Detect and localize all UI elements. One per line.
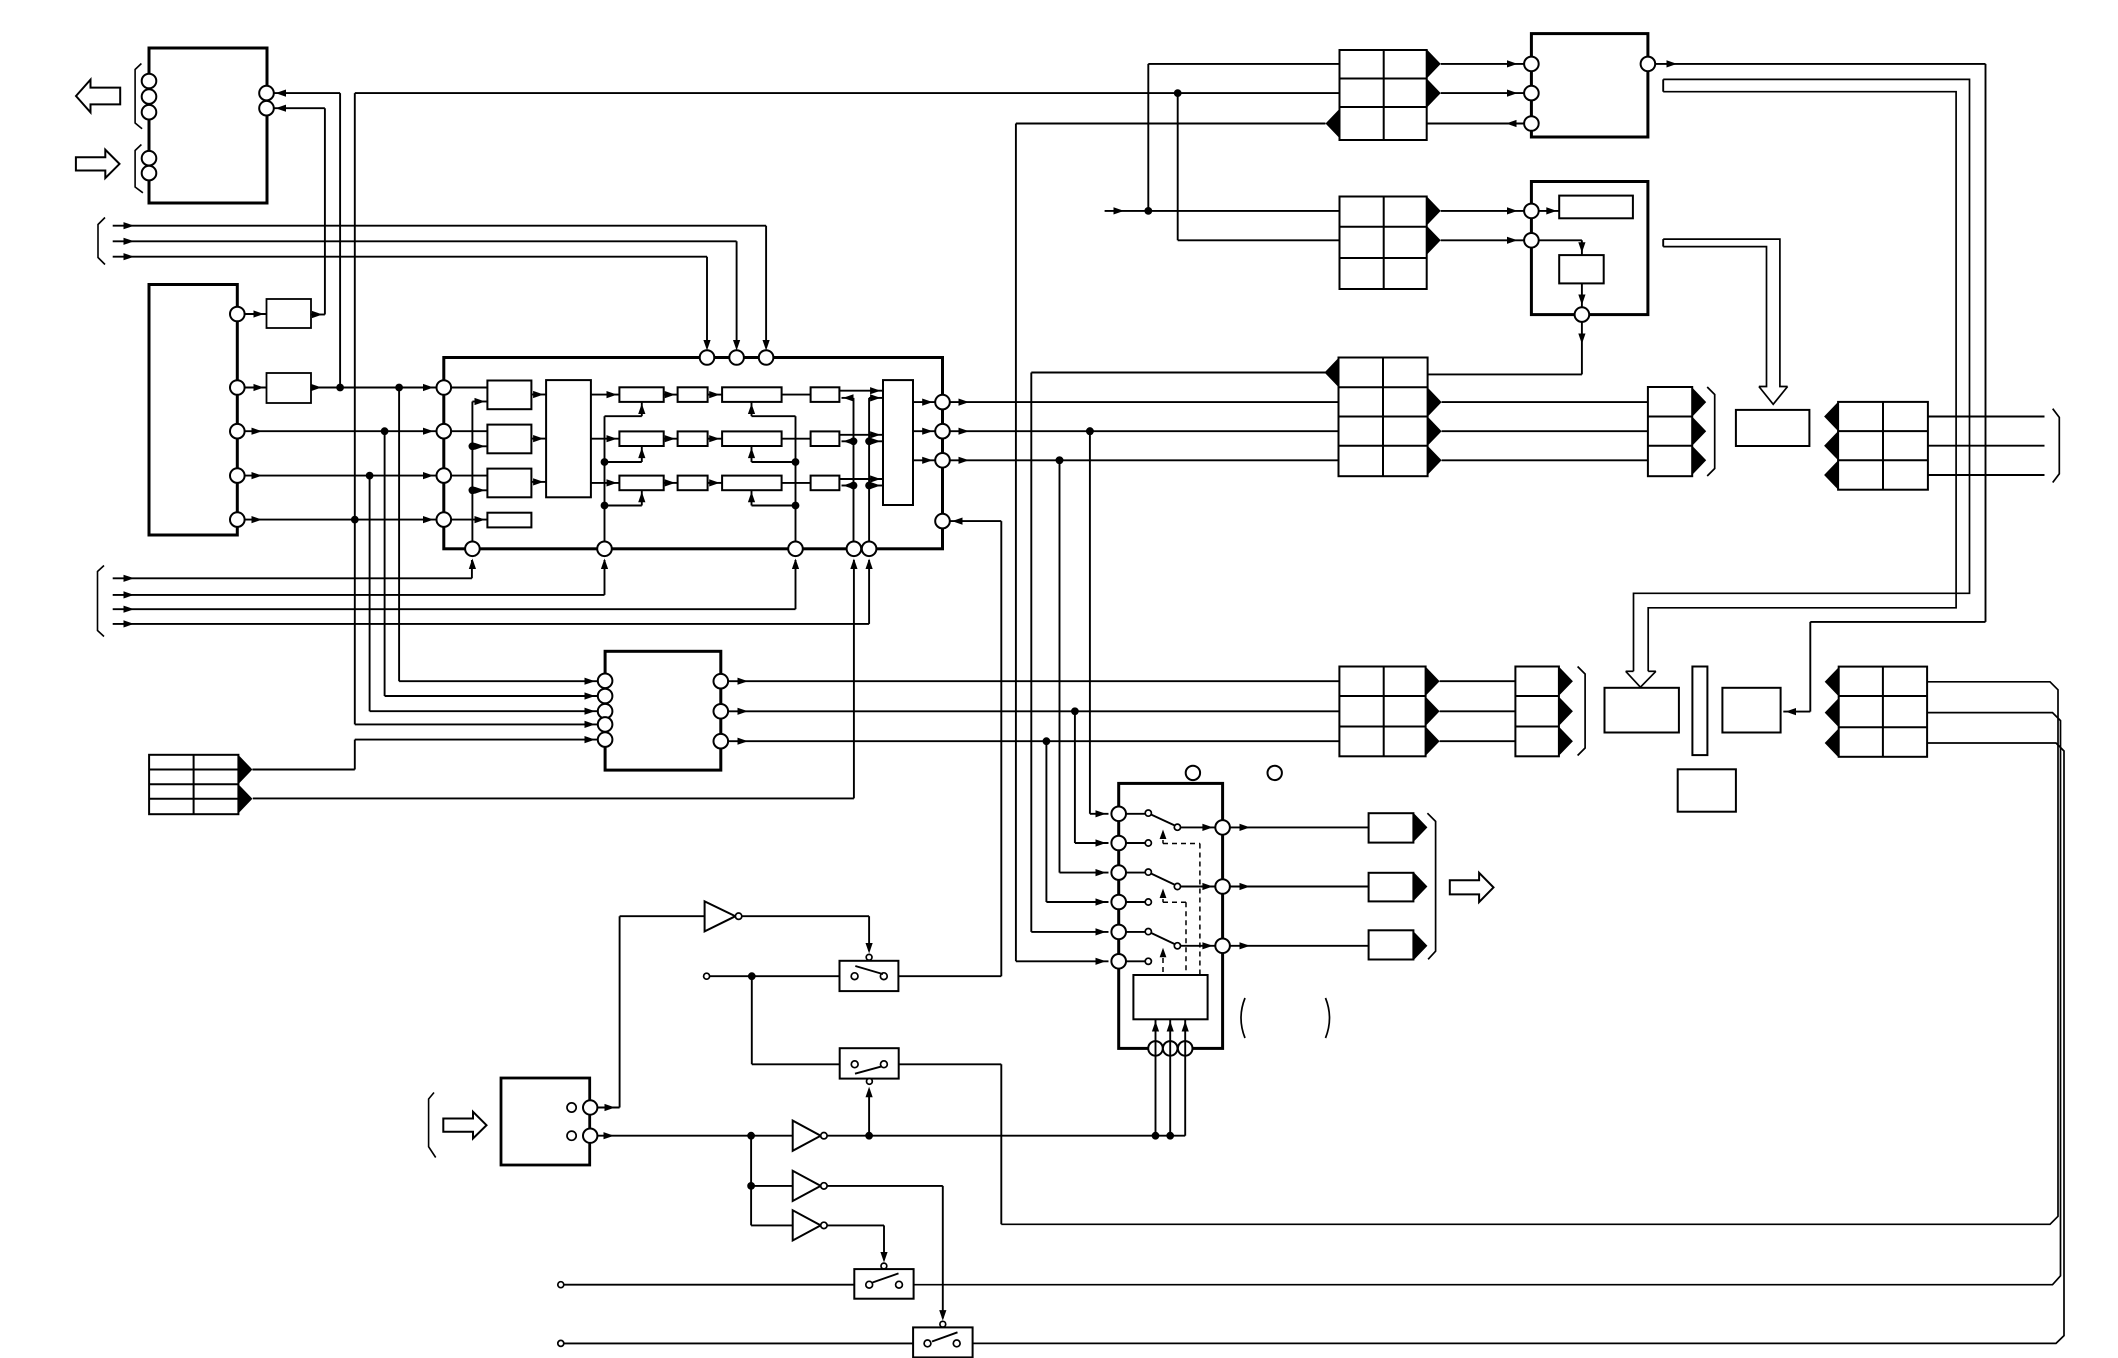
wire: tallrect2 out3 [913, 457, 935, 464]
junction dot y211 x1148.3 [1144, 207, 1152, 215]
box: block2 inner box2 [1559, 255, 1604, 283]
brace ( for output pin group [135, 64, 142, 129]
wire: cable8 row2 to right edge down [914, 713, 2061, 1285]
junction dots on control feed line [1152, 1132, 1175, 1140]
wire: cable7 row2 right [1928, 445, 2045, 447]
box: small box B [267, 373, 312, 403]
wire: inner box2 down to bottom pin [1578, 283, 1585, 307]
switch lever 1 [1151, 815, 1215, 832]
wire: top net y93 horizontal [355, 92, 1340, 94]
cable arrow 1 (to mixer in5) [238, 755, 252, 784]
cable7 arrow row2 left [1824, 431, 1838, 460]
cable6b arrow row3 [1559, 727, 1573, 756]
cable3b arrow row3 [1692, 446, 1706, 475]
wire: switch1 input [704, 973, 840, 979]
hollow bus cap [1662, 79, 1664, 91]
brace ( for 3-wire input group [98, 218, 105, 265]
DSP right pin circles [935, 395, 950, 529]
wire: out3 to DSP in2 [245, 428, 437, 435]
cable connector: bottom-left 2-col [149, 755, 238, 814]
junction dot mixer out3 branch [1043, 737, 1051, 745]
cable8 arrow row2 left [1825, 698, 1839, 727]
cable2 arrow row1 [1427, 196, 1441, 225]
pin circle right edge 1 [259, 86, 274, 101]
wire: top net y93 corner x355 down [354, 93, 356, 519]
wire: riser x472 branch to box2 [472, 443, 487, 450]
junction dot inverter line x868.6 [865, 1132, 873, 1140]
wire: x1046.4 to matrix in4 [1046, 741, 1108, 905]
wire: tallrect2 out1 [913, 399, 935, 406]
box: matrix control logic [1133, 975, 1207, 1019]
cable connector: cable4a [1369, 813, 1414, 842]
box: row2 filter C [722, 431, 782, 446]
dashed control to switch3 [1160, 948, 1167, 975]
box: D1 (left lower DAC) [1605, 688, 1679, 733]
bracket ) after cable7 [2053, 409, 2060, 483]
wire: branch down inverters [750, 1136, 752, 1226]
junction dot out2 x1089.9 [1086, 427, 1094, 435]
hollow arrow pointing right (digital in) [76, 150, 120, 178]
wire: DSP in2 to box2 [451, 430, 487, 432]
cable3 arrow row2 [1428, 388, 1442, 417]
bracket ) after cable3b [1707, 387, 1715, 476]
wire: mixer out3 [728, 738, 1339, 745]
wire: switch1 out up to DSP pin [898, 518, 1001, 977]
wire: boxA out up to x325 [311, 311, 325, 318]
box: switch 4 [913, 1327, 973, 1357]
cable3b arrow row2 [1692, 417, 1706, 446]
switch3 ctrl circle [881, 1263, 887, 1269]
cable4b arrow [1413, 872, 1427, 901]
wire: inverter1 out to switch1 ctrl [742, 916, 873, 953]
wire group1 line2 y241.3 [113, 238, 737, 347]
box: tall rect 1 (demux) [546, 380, 591, 497]
wire: out5 to DSP in4 [245, 516, 437, 523]
wire: riser x472 arrowline [0, 0, 1, 1]
box: row3 filter C [722, 476, 782, 491]
arrows up into bottom pins [469, 559, 873, 570]
DSP left pin circles [437, 380, 452, 527]
box: row3 filter D [811, 476, 840, 491]
box: switch 3 [854, 1269, 913, 1299]
wire: cable3 to cable3b row4 [1442, 459, 1648, 461]
box: switch 1 (mute) [840, 961, 899, 991]
hollow arrow right (clock in) [443, 1112, 486, 1139]
wire: switch2 out down to bottom bus [899, 1064, 1002, 1224]
wire group2 line2 y594.9 [113, 560, 605, 599]
DSP bottom pin circles [465, 542, 876, 557]
wire: x1089.9 from row431 to matrix in1 [1090, 431, 1109, 817]
wire: cable arrow1 to mixer in5 [252, 736, 597, 770]
junction dot top net feeds cable2 branch [1174, 89, 1182, 97]
wire: switch4 input line [558, 1340, 913, 1346]
wire: cable2 row1 to block2 pin1 [1441, 207, 1524, 214]
wire: cable1 row2 to block1 pin2 [1441, 90, 1524, 97]
switch3 circles [866, 1281, 903, 1288]
matrix output pins [1215, 820, 1230, 953]
wire: cable2 row2 to block2 pin2 [1441, 237, 1524, 244]
wire: DSP in1 to box1 [451, 387, 487, 389]
wire: riser x604 branch to row3A [605, 490, 646, 505]
wire: x853.5 top into row1D [842, 394, 854, 541]
wire: box1 to tallrect1 [531, 391, 546, 398]
box: row2 filter B [678, 431, 708, 446]
wire: riser x604 branch to row2A [605, 446, 646, 462]
wire: cable8 row1 to right edge down [1001, 682, 2058, 1225]
wire: branch to inverter3 [751, 1224, 793, 1226]
cable connector: cable2 (from receiver) [1340, 197, 1427, 290]
hollow arrow pointing left (digital out) [76, 80, 120, 113]
wire: x1015.9 from cable1 row3 to matrix in6 [1016, 124, 1109, 965]
cable3 arrow row3 [1428, 417, 1442, 446]
box: DAC1 [1736, 410, 1810, 446]
matrix input pins [1111, 807, 1126, 969]
wire: row3D out to tallrect2 [839, 475, 883, 482]
wire: tallrect1 to row1A [591, 391, 620, 398]
switch1 ctrl circle [866, 954, 872, 960]
wire: row2 A-B [664, 435, 678, 442]
pin circles left edge group2 [142, 151, 157, 181]
box: small box A [267, 299, 312, 328]
wire: inverter3 out to switch3 ctrl [827, 1225, 888, 1262]
box: switch 2 (mute) [840, 1048, 899, 1078]
pin circle receiver out4 [230, 468, 245, 483]
wire: tallrect1 to row3A [591, 479, 620, 486]
box: block2 inner box1 [1559, 196, 1633, 219]
wire: riser x604 from bottom pin2 [604, 416, 606, 541]
cable1 arrow row3 (left) [1326, 109, 1340, 138]
block2 left pins [1524, 204, 1539, 248]
wire: riser x472 branch to box3 [472, 487, 487, 494]
parenthesis ) [1326, 998, 1330, 1038]
wire group1 line3 y256.7 [113, 253, 707, 347]
wire: cable6 to cable6b row3 [1440, 740, 1516, 742]
wire: x1059.5 from row460 to matrix in3 [1060, 460, 1109, 876]
wire: row3 feed into row3D [842, 482, 854, 489]
wire: row2 feed into row2D [842, 438, 854, 445]
cable connector: cable7 2-col [1838, 402, 1928, 490]
block: mixer/selector [605, 651, 721, 770]
wire: cable7 row1 right [1928, 416, 2045, 418]
wire: x869.1 top into tallrect2 [869, 394, 883, 541]
wire: x1148.3 up to cable1 row1 [1148, 64, 1339, 211]
switch2 ctrl circle [867, 1079, 873, 1085]
wire: riser x795 from bottom pin3 [795, 416, 797, 541]
switch1 lever [855, 966, 883, 974]
inverter 2 [793, 1171, 827, 1201]
junction dot x369.6 row476 [366, 472, 374, 480]
junction dots row2 feed [850, 437, 873, 445]
wire: vertical x369.6 row476 to mixer in3 [370, 476, 598, 715]
cable6b arrow row1 [1559, 667, 1573, 696]
box: row2 filter D [811, 431, 840, 446]
wire: return line to x1031 [1031, 372, 1325, 374]
wire group1 line1 y225.7 [113, 222, 766, 347]
DSP top pin circles [700, 350, 774, 365]
wire: riser x604 top branch to row1A [605, 402, 646, 416]
matrix bottom pins [1148, 1041, 1192, 1056]
matrix stubs wires [1126, 814, 1145, 962]
pin circle receiver out3 [230, 424, 245, 439]
wire: cable1 row3 return line [1016, 123, 1326, 125]
box: row3 filter B [678, 476, 708, 491]
block1 left pins [1524, 57, 1539, 131]
box: DAC2 [1722, 688, 1780, 733]
junction dot x751.1 y1185.9 [747, 1182, 755, 1190]
wire: row1 A-B [664, 391, 678, 398]
block1 right pin [1641, 57, 1656, 72]
switch4 ctrl circle [940, 1321, 946, 1327]
junction dots row3 feed [850, 482, 873, 490]
wire: block2 bottom out [1339, 322, 1585, 375]
mixer right pins [714, 674, 729, 749]
wire: vertical x399 row388 to mixer in1 [399, 388, 598, 685]
switch4 circles [924, 1340, 960, 1347]
wire: riser x795 top branch to row1C [748, 402, 796, 416]
wire: right pin1 to vertical x340 [274, 90, 340, 388]
box: row1 filter B [678, 387, 708, 402]
box: row2 filter A [619, 431, 663, 446]
wire: matrix out1 to cable4a [1230, 824, 1369, 831]
wire: out1 to boxA [245, 310, 267, 317]
hollow bus arrowhead down [1626, 671, 1656, 687]
junction dot x399 row388 [395, 384, 403, 392]
arrow up into bottom pin1 [0, 0, 1, 1]
hollow arrow right (headphone out) [1450, 873, 1494, 902]
wire: riser x472 from bottom pin1 [471, 402, 473, 542]
cable4c arrow [1413, 931, 1427, 960]
cable connector: cable4b [1369, 873, 1414, 902]
cable4a arrow [1413, 813, 1427, 842]
wire: block1 out right [1655, 60, 1985, 715]
wire: row2 feed into tallrect2 [869, 438, 883, 445]
box: deemphasis 3 [487, 469, 531, 498]
cable connector: cable6b 1-col [1515, 667, 1559, 757]
box: row1 filter D [811, 387, 840, 402]
cable arrow 2 (to DSP bottom pin4) [238, 784, 252, 813]
block: DSP main (large) [444, 358, 943, 549]
wire: row2 B-C [708, 435, 723, 442]
wire: vertical x384.6 row431 to mixer in2 [385, 431, 598, 699]
wire: out4 to DSP in3 [245, 472, 437, 479]
wire: out2 to boxB [245, 384, 267, 391]
wire: branch to inverter2 [751, 1185, 793, 1187]
wire: row3 feed into tallrect2 [869, 482, 883, 489]
box: floating box below divider [1678, 769, 1736, 811]
inverter mid [793, 1121, 827, 1151]
wire: matrix out3 to cable4c [1230, 942, 1369, 949]
block: optical receiver [1531, 182, 1648, 315]
hollow bus wire from block1 area (inner) [1648, 92, 1956, 672]
wire: riser x795 branch to row2C [748, 446, 796, 462]
wire: clock pin2 long line [597, 1132, 793, 1139]
junction dots riser x604 [601, 458, 609, 509]
junction dot row460 x1059.5 [1056, 456, 1064, 464]
wire: box2 to tallrect1 [531, 435, 546, 442]
wire group2 line4 y623.9 [113, 560, 869, 628]
bracket ) after cable4 [1427, 813, 1435, 959]
wire: row3 B-C [708, 479, 723, 486]
brace ( for input pin group [135, 145, 143, 193]
clock pin circles [583, 1100, 597, 1143]
block: switch matrix [1119, 783, 1223, 1048]
wire: row1 B-C [708, 391, 723, 398]
cable8 arrow row1 left [1825, 667, 1839, 696]
wire: row1D out to tallrect2 [839, 387, 883, 394]
junction dots riser x472 [469, 442, 477, 494]
wire: x1031.3 from return line to matrix in5 [1031, 373, 1108, 936]
wire: DSP out1 row [950, 399, 1340, 406]
switch4 lever [932, 1332, 958, 1341]
junction dot mixer out2 branch [1071, 707, 1079, 715]
wire: mixer out1 [728, 678, 1339, 685]
cable7 arrow row3 left [1824, 460, 1838, 489]
wire: cable7 row3 right [1928, 474, 2045, 476]
wire: right pin2 to vertical x325 [274, 105, 325, 315]
wire: riser x795 branch to row3C [748, 490, 796, 505]
junction dot row431 x1089.9 [1086, 427, 1094, 435]
wire: inverter mid out to matrix ctrl [827, 1135, 1185, 1137]
wire: row3 C-D [782, 482, 811, 484]
box: deemphasis 1 [487, 381, 531, 410]
wire: cable3 to cable3b row3 [1442, 430, 1648, 432]
wire: vertical x354.8 to mixer in4 [355, 520, 598, 728]
cable1 arrow row2 [1427, 79, 1441, 108]
box: row1 filter A [619, 387, 663, 402]
cable8 arrow row3 left [1825, 728, 1839, 757]
wire: row2 C-D [782, 438, 811, 440]
block: clock oscillator [501, 1078, 590, 1165]
cable6 arrow row1 [1426, 667, 1440, 696]
test point circle 2 [1268, 766, 1282, 780]
wire: riser x853.9 from cable arrow2 [253, 560, 854, 798]
wire: stub into y211 net [1105, 207, 1340, 214]
block: digital I/O interface (top-left) [149, 48, 267, 203]
wire: cable8 row3 to right edge down [973, 743, 2064, 1343]
wire: tallrect1 to row2A [591, 435, 620, 442]
wire: block1 pin3 to cable1 row3 [1427, 120, 1524, 127]
wire: cable1 row1 to block1 pin1 [1441, 60, 1524, 67]
block: input receiver (tall left) [149, 285, 237, 536]
wire: boxB out to DSP in1 [311, 384, 436, 391]
wire: inverter2 out to switch4 ctrl [827, 1186, 946, 1321]
wire: cable6 to cable6b row2 [1440, 710, 1516, 712]
wire: row3 A-B [664, 479, 678, 486]
box: divider (tall thin) [1692, 667, 1707, 756]
cable1 arrow row1 [1427, 49, 1441, 78]
arrows into DSP top pins [703, 340, 769, 351]
hollow bus wire from block1 area (outer) [1634, 79, 1970, 671]
cable connector: cable3 2-col [1339, 358, 1428, 477]
switch3 lever [873, 1273, 899, 1282]
wire: matrix out2 to cable4b [1230, 883, 1369, 890]
test point circle 1 [1186, 766, 1200, 780]
mixer left pins [598, 674, 613, 747]
block2 bottom pin [1575, 307, 1590, 322]
wire: row1 C-D [782, 394, 811, 396]
bracket ) after cable6b [1578, 667, 1586, 756]
cable connector: cable3b 1-col [1648, 387, 1692, 476]
switch1 circles [851, 973, 887, 980]
cable7 arrow row1 left [1824, 402, 1838, 431]
cable3 arrow row4 [1428, 446, 1442, 475]
junction dot x340 on row388 [336, 384, 344, 392]
parenthesis ( [1241, 998, 1245, 1038]
wire: mixer out2 [728, 708, 1339, 715]
box: row3 filter A [619, 476, 663, 491]
dashed control to switch1 [1160, 830, 1200, 976]
dashed control to switch2 [1160, 889, 1186, 976]
pin circle receiver out5 [230, 512, 245, 527]
wire: tallrect2 out2 [913, 428, 935, 435]
wire: switch3 input line [558, 1282, 855, 1288]
junction dot x354.8 on row519.6 [351, 516, 359, 524]
wire group2 line3 y609.2 [113, 560, 796, 613]
brace ( at clock input [429, 1093, 436, 1158]
cable connector: cable8 2-col [1839, 667, 1927, 757]
wire: DSP in3 to box3 [451, 475, 487, 477]
pin circles left edge group1 [142, 74, 157, 120]
pin circle receiver out1 [230, 307, 245, 322]
inverter 3 [793, 1210, 827, 1240]
box: row1 filter C [722, 387, 782, 402]
box: deemphasis 2 [487, 425, 531, 454]
block: optical transmitter [1531, 34, 1648, 137]
wire: DSP in4 to thin box [451, 516, 487, 523]
wire: cable3 to cable3b row2 [1442, 401, 1648, 403]
cable6b arrow row2 [1559, 697, 1573, 726]
box: tall rect 2 (mux) [883, 380, 913, 505]
cable connector: cable1 (to transmitter) [1340, 50, 1427, 140]
pin circle receiver out2 [230, 380, 245, 395]
cable2 arrow row2 [1427, 226, 1441, 255]
cable6 arrow row2 [1426, 697, 1440, 726]
wire: DSP out2 row [950, 428, 1340, 435]
wire: box1 second input [472, 398, 487, 405]
junction dot clock line x751.1 [747, 1132, 755, 1140]
wire group2 line1 y578.3 [113, 560, 472, 582]
cable connector: cable6 2-col [1339, 667, 1425, 757]
wire: x1177.7 from y93 to cable2 row2 [1178, 93, 1340, 240]
switch2 circles [851, 1061, 887, 1068]
switch lever 3 [1151, 933, 1215, 950]
inverter 1 [705, 901, 742, 931]
wire: clock pin1 up to inverter1 [597, 916, 704, 1111]
cable3 arrow row1 left [1325, 358, 1339, 387]
matrix stub circles [1145, 810, 1151, 964]
cable3b arrow row1 [1692, 388, 1706, 417]
wire: row2D out to tallrect2 [839, 431, 883, 438]
junction dot switch1 input [748, 972, 756, 980]
wire: box3 to tallrect1 [531, 478, 546, 485]
wire: block2 pin2 to inner box2 [1539, 240, 1586, 255]
hollow bus arrow into DAC1 (vertical) [1663, 239, 1787, 404]
pin circle right edge 2 [259, 101, 274, 116]
cable connector: cable4c [1369, 930, 1414, 959]
cable6 arrow row3 [1426, 727, 1440, 756]
wire: block2 pin1 to inner box1 [1539, 207, 1560, 214]
junction dot out3 x1059.5 [1056, 456, 1064, 464]
junction dots riser x795 [792, 458, 800, 509]
wire: DSP out3 row [950, 457, 1340, 464]
switch2 lever [855, 1066, 882, 1073]
wires: control box bottom feeds [1152, 1019, 1189, 1135]
wire: cable6 to cable6b row1 [1440, 680, 1516, 682]
wire: x1074.9 to matrix in2 [1075, 711, 1109, 846]
wire: branch down to switch2 [752, 976, 840, 1064]
clock inner circles [567, 1103, 576, 1140]
wire: D2 box input arrow [0, 0, 1, 1]
